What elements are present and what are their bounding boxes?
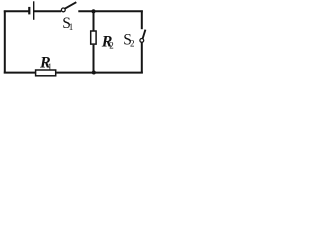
wire junction down to R2 xyxy=(93,11,95,30)
svg-text:2: 2 xyxy=(130,38,135,48)
junction node top xyxy=(91,9,95,13)
switch S1 pivot circle xyxy=(61,8,65,12)
wire battery to switch S1 xyxy=(34,10,62,12)
switch S1 blade xyxy=(65,2,76,8)
svg-text:1: 1 xyxy=(48,62,53,72)
battery negative plate (short) xyxy=(28,7,30,14)
wire R2 to bottom junction xyxy=(93,45,95,73)
wire right vertical lower xyxy=(141,42,143,73)
resistor R2 box xyxy=(91,31,96,44)
battery positive plate (long) xyxy=(33,1,35,20)
wire left vertical xyxy=(4,10,6,73)
wire R1 to bottom junction and right corner xyxy=(56,72,142,74)
resistor R1 box xyxy=(36,70,56,76)
svg-text:2: 2 xyxy=(109,40,114,50)
junction node bottom xyxy=(92,71,96,75)
wire S1 to top-right corner xyxy=(78,10,143,12)
switch S2 pivot circle xyxy=(140,39,144,43)
svg-text:1: 1 xyxy=(69,22,74,32)
switch S2 blade xyxy=(143,30,146,39)
wire bottom-left to R1 xyxy=(4,72,35,74)
wire right vertical upper xyxy=(141,10,143,29)
wire top-left to battery xyxy=(4,10,29,12)
